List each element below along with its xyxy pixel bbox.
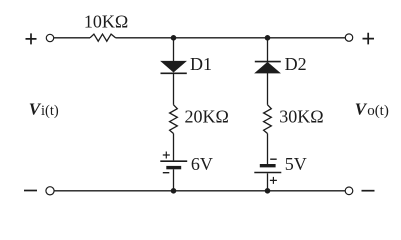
- svg-text:10KΩ: 10KΩ: [84, 12, 128, 32]
- plus sign (input, top-left): [26, 33, 37, 44]
- label Vi(t): [29, 100, 59, 119]
- node junction dot (bottom, branch 2): [265, 188, 271, 194]
- node junction dot (bottom, branch 1): [171, 188, 177, 194]
- battery B1 6V short thick plate (-): [166, 166, 181, 169]
- node junction dot (top, branch 2): [265, 35, 271, 41]
- svg-text:D1: D1: [190, 54, 212, 74]
- svg-text:30KΩ: 30KΩ: [279, 106, 323, 126]
- diode D1 (cathode down): [162, 61, 186, 71]
- wire branch1: top rail to diode D1: [173, 38, 175, 62]
- diode D2 cathode bar (top): [255, 61, 281, 63]
- svg-text:i(t): i(t): [41, 103, 59, 119]
- diode D1 cathode bar: [161, 72, 187, 74]
- svg-text:o(t): o(t): [367, 103, 389, 119]
- battery B1 6V long plate (+): [160, 160, 187, 162]
- terminal circle (top-left): [46, 34, 53, 41]
- plus sign (output, top-right): [363, 33, 375, 45]
- node junction dot (top, branch 1): [171, 35, 177, 41]
- terminal circle (top-right): [345, 34, 352, 41]
- terminal circle (bottom-right): [345, 187, 353, 195]
- svg-text:D2: D2: [285, 54, 307, 74]
- wire resistor 30K to battery 5V: [267, 134, 269, 165]
- svg-text:5V: 5V: [285, 154, 307, 174]
- battery B2 5V short thick plate (-): [260, 164, 276, 167]
- svg-text:V: V: [29, 100, 42, 119]
- battery B2 plus sign: [270, 177, 277, 184]
- battery B1 plus sign: [163, 152, 170, 159]
- diode D2 (cathode up): [256, 63, 280, 73]
- wire bottom rail: [54, 190, 345, 192]
- wire resistor 20K to battery 6V: [173, 134, 175, 161]
- wire battery 6V to bottom rail: [173, 169, 175, 191]
- minus sign (input, bottom-left): [24, 190, 37, 192]
- resistor R2 20KOhm zigzag: [170, 105, 178, 134]
- resistor R1 10KOhm zigzag: [90, 34, 116, 41]
- wire top-left to resistor: [54, 37, 90, 39]
- terminal circle (bottom-left): [46, 187, 54, 195]
- label Vo(t): [355, 100, 389, 120]
- minus sign (output, bottom-right): [362, 190, 375, 192]
- resistor R3 30KOhm zigzag: [264, 105, 272, 134]
- svg-text:20KΩ: 20KΩ: [185, 106, 229, 126]
- wire resistor to top-right terminal: [116, 37, 346, 39]
- svg-text:V: V: [355, 100, 368, 119]
- battery B2 minus sign: [270, 158, 277, 160]
- battery B1 minus sign: [163, 172, 170, 174]
- wire D2 to resistor 30K: [267, 73, 269, 105]
- wire battery 5V to bottom rail: [267, 173, 269, 191]
- svg-text:6V: 6V: [191, 154, 213, 174]
- battery B2 5V long plate (+): [254, 172, 281, 174]
- wire D1 to resistor 20K: [173, 73, 175, 105]
- wire branch2: top rail to diode D2: [267, 38, 269, 62]
